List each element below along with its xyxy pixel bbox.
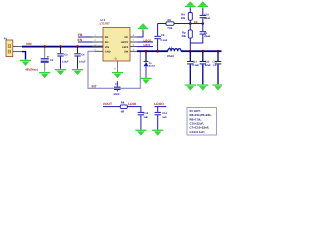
svg-text:1uF: 1uF xyxy=(162,116,167,119)
svg-text:0.1uF: 0.1uF xyxy=(161,39,168,42)
svg-text:EN: EN xyxy=(105,41,109,44)
svg-text:C13: C13 xyxy=(143,112,148,115)
node junction FB xyxy=(189,22,192,25)
diode D1 xyxy=(144,52,149,78)
svg-text:G: G xyxy=(115,58,117,61)
ground C3 xyxy=(55,69,66,75)
capacitor C2 (polarized) xyxy=(41,47,49,71)
pin stub GND bottom xyxy=(117,61,119,72)
svg-text:0R: 0R xyxy=(121,111,124,114)
capacitor C7 xyxy=(114,81,121,92)
pin stub pin2 xyxy=(13,51,22,53)
wire pin2 to ground xyxy=(22,52,26,60)
capacitor C1 xyxy=(190,24,206,44)
svg-text:NC: NC xyxy=(124,36,128,39)
capacitor C15 branch xyxy=(215,52,221,84)
svg-text:R6: R6 xyxy=(168,19,172,22)
wire LBO stub xyxy=(137,41,153,43)
ground C12 xyxy=(197,84,208,90)
pin stub NC right xyxy=(130,36,137,38)
svg-text:VOUT: VOUT xyxy=(103,102,112,106)
svg-text:1uF: 1uF xyxy=(143,116,148,119)
notes box xyxy=(187,108,217,136)
wire EN xyxy=(78,41,92,43)
svg-text:C13=0.1uF;: C13=0.1uF; xyxy=(190,130,206,134)
power arrow VCC1 xyxy=(138,23,148,30)
node junction C2 xyxy=(43,45,46,48)
node junction C4 xyxy=(76,45,79,48)
pin stub FB xyxy=(92,36,103,38)
wire SW output rail xyxy=(137,50,168,52)
pin stub LBO right xyxy=(130,41,137,43)
svg-text:C7: C7 xyxy=(115,83,119,86)
svg-text:0.1uF: 0.1uF xyxy=(192,64,199,67)
node junction out1 xyxy=(189,50,192,53)
wire LBI stub xyxy=(137,46,153,48)
svg-text:1uF: 1uF xyxy=(213,64,218,67)
capacitor C11 branch xyxy=(187,52,193,84)
svg-text:24k: 24k xyxy=(182,35,187,38)
pin stub GND left xyxy=(95,50,103,52)
svg-text:FB: FB xyxy=(78,33,83,37)
svg-text:22uF: 22uF xyxy=(204,35,210,38)
node junction out3 xyxy=(217,50,220,53)
svg-text:GND: GND xyxy=(105,51,111,54)
svg-text:R8: R8 xyxy=(121,101,125,104)
svg-text:C15: C15 xyxy=(212,60,217,63)
ground C13 xyxy=(135,130,146,136)
svg-text:10k: 10k xyxy=(181,17,186,20)
svg-text:22uF: 22uF xyxy=(205,64,211,67)
svg-text:47uH: 47uH xyxy=(167,55,174,58)
pin stub pin1 xyxy=(13,46,22,48)
pin stub VIN xyxy=(92,46,103,48)
capacitor C14 xyxy=(155,107,161,130)
resistor R4 xyxy=(188,8,192,23)
svg-text:50nF: 50nF xyxy=(114,93,120,96)
op-amp U1 regulator IC body xyxy=(103,28,130,62)
ground C15 xyxy=(212,84,223,90)
svg-text:LBI1: LBI1 xyxy=(144,43,151,47)
ground D1 xyxy=(140,78,151,84)
svg-text:C9: C9 xyxy=(161,34,165,37)
capacitor C10 xyxy=(200,8,206,23)
svg-text:C12: C12 xyxy=(205,60,210,63)
node junction C3 xyxy=(59,45,62,48)
svg-text:LBOI: LBOI xyxy=(122,46,128,49)
svg-text:9: 9 xyxy=(114,68,116,71)
wire FB to C10 column xyxy=(190,23,203,25)
power arrow VCC3 xyxy=(198,1,208,8)
svg-text:INT: INT xyxy=(92,85,97,89)
svg-text:C11: C11 xyxy=(192,60,197,63)
wire pin8 to power xyxy=(137,30,143,37)
svg-text:C14: C14 xyxy=(162,112,167,115)
svg-text:FB: FB xyxy=(105,36,109,39)
node junction C10 bottom xyxy=(202,22,205,25)
capacitor C13 xyxy=(138,107,144,130)
svg-text:0.1uF: 0.1uF xyxy=(79,60,86,63)
capacitor C12 branch xyxy=(200,52,206,84)
svg-text:L1: L1 xyxy=(169,46,173,49)
svg-text:D1: D1 xyxy=(149,62,153,65)
capacitor C9 xyxy=(154,24,160,51)
svg-text:LBO1: LBO1 xyxy=(144,38,153,42)
svg-text:P1: P1 xyxy=(4,37,8,40)
inductor L1 xyxy=(168,49,181,52)
pin stub SW right xyxy=(130,50,137,52)
svg-text:VIN: VIN xyxy=(26,42,32,46)
wire feedback top xyxy=(158,23,191,25)
resistor R8 xyxy=(120,105,127,109)
capacitor C4 xyxy=(74,47,80,68)
svg-text:LBOO: LBOO xyxy=(121,41,129,44)
node junction out2 xyxy=(202,50,205,53)
svg-text:LT1767: LT1767 xyxy=(100,22,110,26)
svg-text:EN: EN xyxy=(78,38,83,42)
svg-text:VIN: VIN xyxy=(105,46,109,49)
resistor R5 xyxy=(188,24,192,51)
wire LDOO xyxy=(155,106,167,108)
wire R8 to LDOI xyxy=(127,106,141,108)
svg-text:7.5k: 7.5k xyxy=(167,27,173,30)
svg-text:LDOO: LDOO xyxy=(154,102,164,106)
svg-text:C2: C2 xyxy=(50,59,54,62)
power arrow VCC2 xyxy=(185,1,195,8)
ground C11 xyxy=(185,84,196,90)
wire INT path xyxy=(88,51,140,88)
ground C14 xyxy=(152,130,163,136)
svg-text:C4: C4 xyxy=(81,54,85,57)
svg-text:B230A: B230A xyxy=(149,65,156,68)
svg-text:22uF: 22uF xyxy=(204,17,210,20)
node junction diode xyxy=(145,50,148,53)
ground connector xyxy=(20,60,31,66)
svg-text:48V(Max): 48V(Max) xyxy=(25,67,38,71)
wire VOUT xyxy=(103,106,120,108)
ground C4 xyxy=(72,69,83,75)
wire FB xyxy=(78,36,92,38)
connector P1 xyxy=(6,40,13,57)
svg-text:LDOI: LDOI xyxy=(128,102,136,106)
svg-text:C3: C3 xyxy=(64,54,68,57)
ground C2 xyxy=(39,72,50,78)
svg-text:2.2uF: 2.2uF xyxy=(62,60,69,63)
capacitor C3 xyxy=(57,47,63,68)
pin stub EN xyxy=(92,41,103,43)
node junction C9 xyxy=(156,50,159,53)
pin stub LBI right xyxy=(130,46,137,48)
ground IC xyxy=(112,72,123,78)
resistor R6 xyxy=(166,22,174,26)
wire output rail right of inductor xyxy=(181,50,222,52)
notes text xyxy=(190,109,212,134)
svg-text:SW: SW xyxy=(124,51,129,54)
wire VIN rail xyxy=(22,46,103,48)
